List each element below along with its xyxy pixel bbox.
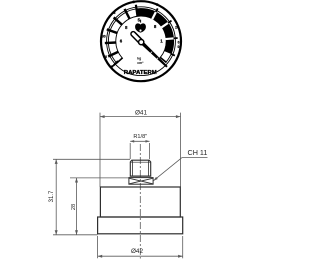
svg-text:RAPATERM: RAPATERM [124,70,158,76]
svg-text:kg: kg [137,56,141,60]
svg-text:Ø41: Ø41 [135,110,148,117]
svg-text:40: 40 [103,55,107,59]
centerline [139,144,141,259]
svg-text:28: 28 [71,204,77,210]
scale band white tick gaps [152,11,174,39]
needle rear capsule [133,34,140,42]
dim line Ø42 [98,255,183,257]
band crossing ticks (outlined zone) [105,9,130,57]
svg-text:20: 20 [175,25,179,29]
CH 11 leader line [182,157,208,159]
needle front shaft [140,41,168,68]
svg-text:CH 11: CH 11 [188,148,208,157]
31.7 top extension line [53,158,130,160]
maker logo (heart mark) [135,23,146,32]
dim line R1/8 [130,140,149,142]
svg-text:31.7: 31.7 [49,190,55,202]
svg-text:cm²: cm² [137,61,144,65]
dial numerals [102,11,180,59]
scale band end bars [116,57,166,63]
bezel marker dots [132,1,135,4]
12 o-clock tick [136,5,138,17]
svg-text:R1/8": R1/8" [133,134,147,140]
gauge dial thin circle [107,7,176,76]
zero stop pin [114,62,118,66]
gauge scale band outlined annulus [108,9,173,63]
dim line 31.7 [55,159,57,235]
bottom extension line [53,234,98,236]
Ø41 extension line right [180,113,182,187]
gauge bezel outer circle [101,1,181,81]
dim line Ø41 [100,116,181,118]
bottom rim [98,217,183,234]
svg-text:Ø42: Ø42 [131,248,144,255]
outer ring black ticks (black zone) [156,8,178,55]
svg-text:8: 8 [113,11,115,15]
28 top extension line [70,177,129,179]
hex nut CH11 [129,178,153,185]
R1/8 extension lines [129,143,131,159]
gauge body [100,187,180,217]
svg-text:0: 0 [177,45,179,49]
svg-text:30: 30 [102,34,106,38]
stub collar [130,175,151,177]
hex chamfer lines [129,178,152,184]
unit text kg/cm2 [137,56,144,65]
needle hub [139,40,144,45]
Ø41 extension line left [99,113,101,187]
Ø42 extension lines [97,236,99,258]
gauge scale band black range [136,8,173,54]
threaded stub [130,160,150,176]
dim line 28 [76,178,78,235]
